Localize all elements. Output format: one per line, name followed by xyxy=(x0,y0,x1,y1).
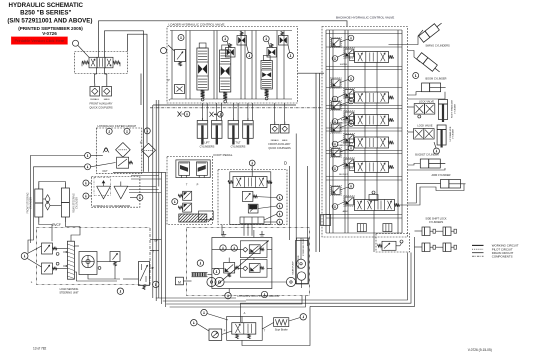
front auxiliary quick coupler male xyxy=(102,87,112,97)
traction block overlay xyxy=(199,211,214,220)
loader P port check xyxy=(168,79,185,94)
brake motor box xyxy=(197,324,222,341)
pedal port labels xyxy=(186,183,199,187)
coupler labels xyxy=(89,98,112,109)
left stabilizer cylinder xyxy=(437,125,455,148)
backhoe valve enclosure xyxy=(322,27,408,238)
wire EF T P stubs xyxy=(150,240,161,269)
title block xyxy=(7,2,92,36)
svg-text:FAN MOTOR: FAN MOTOR xyxy=(297,255,300,268)
front auxiliary valve enclosure xyxy=(75,52,128,74)
charge relief valve xyxy=(224,263,239,278)
load sensing steering unit enclosure xyxy=(37,228,151,285)
svg-text:FOOT PEDAL: FOOT PEDAL xyxy=(214,153,233,157)
arm center pilot xyxy=(369,191,378,201)
pump bottom balloons xyxy=(225,291,268,299)
wire couplers risers xyxy=(275,103,285,119)
wire side shift xyxy=(415,231,444,247)
svg-text:SIDE SHIFT LOCK: SIDE SHIFT LOCK xyxy=(425,218,447,221)
backhoe inner rails xyxy=(326,30,402,233)
servo check diamond upper xyxy=(243,247,248,252)
svg-text:COMPONENTS: COMPONENTS xyxy=(492,254,513,258)
backhoe pilot valve a l.h. stabilizer xyxy=(330,121,354,134)
mid pilot valve enclosure xyxy=(218,170,287,225)
steering relief lower xyxy=(42,263,53,274)
steering relief upper xyxy=(42,243,53,254)
svg-text:D: D xyxy=(284,161,287,166)
svg-text:13 of 782: 13 of 782 xyxy=(33,347,47,351)
loader spool section 3 aux xyxy=(261,61,272,90)
IN filter diamond xyxy=(140,142,156,158)
servo sub-box upper xyxy=(240,241,267,258)
brake valve spool xyxy=(232,323,256,334)
svg-text:CYLINDER: CYLINDER xyxy=(453,128,455,139)
svg-text:FRONT AUXILIARY: FRONT AUXILIARY xyxy=(268,143,290,146)
traction bar hatched xyxy=(179,214,207,222)
steering unit relief small xyxy=(110,252,120,262)
EF T P labels xyxy=(152,239,158,271)
mid inner housing xyxy=(230,172,271,225)
port relief pair section2 b xyxy=(237,32,247,46)
svg-text:BUCKET: BUCKET xyxy=(339,174,349,176)
charge pump circles xyxy=(207,277,224,286)
svg-text:BOOM CYLINDER: BOOM CYLINDER xyxy=(426,78,447,81)
parking brake symbol xyxy=(274,318,289,332)
wire brake connections xyxy=(242,306,310,345)
svg-text:ARM CYLINDER: ARM CYLINDER xyxy=(432,174,451,177)
wire top trunk from front aux to backhoe valve xyxy=(99,21,348,58)
swing cylinder upper xyxy=(419,20,444,42)
wire lock valves xyxy=(408,107,415,132)
backhoe unload valve xyxy=(378,240,404,250)
svg-text:CYLINDER: CYLINDER xyxy=(75,197,78,209)
pump balloons xyxy=(197,245,237,275)
svg-text:P: P xyxy=(197,183,199,187)
wire bucket xyxy=(408,164,446,171)
foot pedal valve right xyxy=(197,162,208,178)
pilot actuator circle xyxy=(73,40,79,46)
port circles xyxy=(56,253,101,270)
wire bottom loop lines xyxy=(156,237,415,322)
tilt cylinder left xyxy=(228,121,239,139)
lock valve 2 xyxy=(414,129,435,140)
svg-text:HYDRAULIC SCHEMATIC: HYDRAULIC SCHEMATIC xyxy=(9,2,84,9)
vent plug with balloon second xyxy=(210,112,224,118)
suction strainer funnel right xyxy=(114,182,128,199)
backhoe spool swing xyxy=(340,52,394,67)
svg-text:HYDROSTATIC PUMP GROUP: HYDROSTATIC PUMP GROUP xyxy=(237,294,279,298)
svg-text:M: M xyxy=(178,280,181,284)
swing cylinder lower xyxy=(417,53,442,75)
vent plug with balloon xyxy=(178,111,190,117)
svg-text:HYDRAULIC FILTER GROUP: HYDRAULIC FILTER GROUP xyxy=(98,124,137,128)
port relief pair section2 a xyxy=(226,44,236,58)
side shift lock cylinders xyxy=(422,227,457,252)
lock valve 1 xyxy=(414,104,435,118)
servo relief lower xyxy=(249,264,264,273)
wire reservoir to left margin loop xyxy=(28,156,85,253)
svg-text:OUT: OUT xyxy=(102,170,108,173)
backhoe pilot valve a swing xyxy=(330,35,354,47)
steering spool column xyxy=(63,241,74,279)
reservoir balloons xyxy=(83,153,143,201)
wire trunk below loader solid xyxy=(153,104,296,106)
pedal balloon xyxy=(172,199,178,205)
priority valve balloons xyxy=(117,281,159,294)
wire swing cylinders xyxy=(389,30,424,62)
svg-text:CYLINDER: CYLINDER xyxy=(454,103,456,114)
backhoe check block left xyxy=(357,224,366,232)
brake balloon top xyxy=(201,309,207,315)
loader spool section 1 lift xyxy=(197,48,208,90)
motor box M xyxy=(175,277,183,285)
svg-text:CYLINDERS: CYLINDERS xyxy=(200,144,215,148)
svg-text:STABILIZER: STABILIZER xyxy=(337,144,350,147)
front auxiliary valve spool xyxy=(82,57,120,68)
svg-text:CYLINDERS: CYLINDERS xyxy=(231,144,246,148)
svg-text:A: A xyxy=(244,311,246,315)
pump inner housing xyxy=(212,238,272,289)
wire pump risers to mid box xyxy=(222,225,252,236)
filter check valve xyxy=(103,148,109,153)
priority valve xyxy=(139,262,150,290)
gerotor metering unit xyxy=(79,252,97,275)
svg-text:TILT: TILT xyxy=(235,141,241,145)
mid lower block xyxy=(240,217,264,224)
svg-text:RVCF: RVCF xyxy=(52,223,61,227)
brake valve links xyxy=(222,311,266,335)
svg-text:LIFT: LIFT xyxy=(204,141,210,145)
foot pedal enclosure xyxy=(167,157,213,225)
reservoir inner dashdot box xyxy=(94,177,111,195)
svg-text:FEMALE: FEMALE xyxy=(90,98,99,101)
filter bypass valve xyxy=(117,157,133,168)
legend lines xyxy=(472,245,484,256)
loader hydraulic control valve enclosure xyxy=(167,27,298,104)
steering balloon xyxy=(21,253,28,260)
svg-text:T: T xyxy=(169,98,171,102)
steering pump circle xyxy=(296,237,305,268)
brake balloon b xyxy=(300,314,306,320)
front auxiliary quick coupler female xyxy=(90,87,100,97)
backhoe spool boom xyxy=(340,92,393,107)
hydraulic oil reservoir enclosure xyxy=(92,177,140,208)
backhoe pilot valve a boom xyxy=(330,76,354,89)
pump drain symbols top xyxy=(221,231,264,236)
backhoe pilot valve b l.h. stabilizer xyxy=(332,133,354,147)
svg-text:FRONT AUXILIARY: FRONT AUXILIARY xyxy=(90,102,113,106)
servo relief upper xyxy=(249,245,264,254)
swashplate arrow xyxy=(218,241,269,285)
svg-text:IN: IN xyxy=(140,142,143,145)
svg-text:QUICK COUPLERS: QUICK COUPLERS xyxy=(89,105,112,109)
wire aux return line xyxy=(140,74,142,106)
mid relief valve xyxy=(242,191,253,201)
reducing valve lower xyxy=(178,203,192,212)
wire backhoe galleries xyxy=(326,34,402,219)
svg-text:RIGHT STABILIZER: RIGHT STABILIZER xyxy=(451,99,454,118)
lift cylinder right xyxy=(212,121,223,139)
svg-text:Printable Version Click Here: Printable Version Click Here xyxy=(14,38,65,43)
wire loader to backhoe feed xyxy=(298,72,325,74)
brake pilot circle a xyxy=(191,320,197,326)
svg-text:BUCKET CYLINDER: BUCKET CYLINDER xyxy=(415,153,439,156)
backhoe spool bucket xyxy=(339,162,393,177)
tilt cylinder right xyxy=(243,121,254,139)
wire steering unit internals xyxy=(53,246,139,281)
backhoe check block right xyxy=(383,224,392,232)
wire filter to loader feed xyxy=(148,157,150,172)
printable version link xyxy=(11,37,67,45)
legend labels xyxy=(492,244,519,259)
svg-text:FEMALE: FEMALE xyxy=(271,139,280,142)
cylinder labels xyxy=(200,141,246,149)
svg-text:SWING CYLINDERS: SWING CYLINDERS xyxy=(425,43,450,47)
servo check diamond lower xyxy=(243,266,248,271)
backhoe pilot valve b swing xyxy=(332,48,354,62)
svg-text:LOAD SENSING: LOAD SENSING xyxy=(60,288,79,291)
backhoe pilot valve b bucket xyxy=(332,158,354,172)
side shift lock label xyxy=(425,218,447,225)
bucket cylinder xyxy=(420,159,440,168)
wire reservoir connections xyxy=(91,156,137,198)
boom balloon xyxy=(413,73,419,79)
backhoe spool arm xyxy=(343,200,400,214)
wire backhoe inlet block xyxy=(321,215,331,226)
front steering cylinder xyxy=(27,184,43,222)
servo sub-box lower xyxy=(240,260,267,278)
wire front aux to filter drop xyxy=(105,31,144,172)
backhoe pilot valve b boom xyxy=(332,88,354,101)
filter balloons xyxy=(106,128,150,134)
boom cylinder xyxy=(422,83,441,92)
wire trunk bundle horizontal xyxy=(113,172,166,192)
port relief pair section3 a xyxy=(267,44,277,58)
wire trunk below loader dashdot xyxy=(150,107,322,109)
suction strainer funnel left xyxy=(97,180,111,199)
wire drain vertical D xyxy=(289,166,291,240)
svg-text:QUICK COUPLERS: QUICK COUPLERS xyxy=(268,147,291,150)
svg-text:LOCK VALVE: LOCK VALVE xyxy=(419,100,435,103)
svg-text:SWING: SWING xyxy=(340,64,348,66)
loader inlet relief valve xyxy=(168,45,186,66)
svg-text:UP STABILIZER: UP STABILIZER xyxy=(449,126,452,141)
backhoe pilot valve a arm xyxy=(330,183,354,196)
right stabilizer cylinder xyxy=(439,99,457,122)
backhoe spool l.h. stabilizer xyxy=(337,137,394,148)
brake valve outer box xyxy=(227,316,263,340)
svg-text:HYDRAULIC OIL RESERVOIR: HYDRAULIC OIL RESERVOIR xyxy=(93,204,130,208)
wire trunk bundle vertical xyxy=(153,100,166,307)
foot pedal inner housing xyxy=(176,160,210,178)
loader balloon circles xyxy=(178,35,294,59)
port relief pair section3 b xyxy=(279,32,289,46)
lock valve 2 balloon xyxy=(434,148,440,154)
svg-text:Supr Brake: Supr Brake xyxy=(275,328,289,332)
loader spool section 2 tilt xyxy=(220,50,231,92)
reducing valve upper xyxy=(178,191,192,200)
svg-text:LOCK VALVE: LOCK VALVE xyxy=(417,125,433,128)
steering check diamonds xyxy=(45,195,50,211)
traction bar arrow xyxy=(208,218,212,222)
wire steering cylinders loop xyxy=(39,182,80,227)
mid spool valve xyxy=(233,177,267,188)
wire pump internals xyxy=(183,230,301,293)
filter main diamond xyxy=(116,143,131,158)
backhoe spool r.h. stabilizer xyxy=(337,115,394,126)
svg-text:STEERING UNIT: STEERING UNIT xyxy=(59,292,79,295)
brake valve springs below xyxy=(236,334,251,339)
pump right housing xyxy=(297,238,309,284)
backhoe pilot valve b arm xyxy=(332,196,354,210)
svg-text:MALE: MALE xyxy=(282,139,288,142)
mid balloons column xyxy=(249,160,282,225)
backhoe sub enclosure xyxy=(376,234,410,253)
svg-text:MALE: MALE xyxy=(104,98,110,101)
wire loader outputs down to cylinders xyxy=(202,103,252,121)
fan motor housing xyxy=(296,241,309,289)
loader internal gallery wires xyxy=(169,31,293,103)
wire long feed pair xyxy=(296,73,319,252)
wire backhoe risers xyxy=(345,30,377,252)
lift cylinder left xyxy=(197,121,208,139)
rear steering cylinder xyxy=(61,183,78,222)
svg-text:LOADER HYDRAULIC CONTROL VALVE: LOADER HYDRAULIC CONTROL VALVE xyxy=(169,22,225,26)
backhoe pilot valve a bucket xyxy=(330,145,354,158)
svg-text:V-0726 (9-15-05): V-0726 (9-15-05) xyxy=(468,348,492,352)
wire arm cylinder xyxy=(395,184,465,205)
mid reducing valve solenoid xyxy=(248,204,258,213)
svg-text:V-0726: V-0726 xyxy=(42,31,57,36)
arm cylinder xyxy=(441,180,461,189)
wire boom xyxy=(408,92,446,99)
second quick coupler pair xyxy=(268,119,291,150)
wire front aux valve to couplers xyxy=(95,68,107,84)
backhoe pilot valve b r.h. stabilizer xyxy=(332,111,354,124)
gear pump circle xyxy=(286,261,295,287)
svg-text:B250 "B SERIES": B250 "B SERIES" xyxy=(20,10,71,17)
hydrostatic pump group enclosure xyxy=(187,228,310,296)
hydraulic filter group enclosure xyxy=(96,128,142,173)
orifice manifold hatched xyxy=(192,272,208,277)
relief pilot circle xyxy=(161,48,167,54)
backhoe pilot valve a r.h. stabilizer xyxy=(330,98,354,111)
svg-text:GEAR PUMP: GEAR PUMP xyxy=(292,261,295,275)
foot pedal valve left xyxy=(179,162,190,178)
svg-text:(S/N 572911001 AND ABOVE): (S/N 572911001 AND ABOVE) xyxy=(7,17,92,24)
wire pressure feed line xyxy=(128,34,148,143)
svg-text:CYLINDERS: CYLINDERS xyxy=(429,221,444,224)
svg-text:BACKHOE HYDRAULIC CONTROL VALV: BACKHOE HYDRAULIC CONTROL VALVE xyxy=(336,16,394,20)
wire steering column risers xyxy=(39,182,80,242)
